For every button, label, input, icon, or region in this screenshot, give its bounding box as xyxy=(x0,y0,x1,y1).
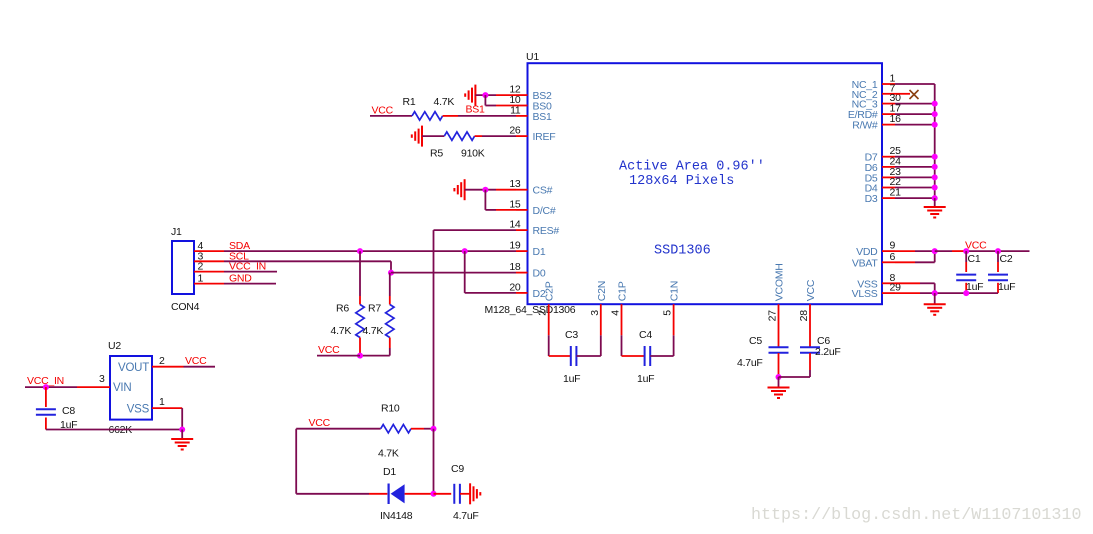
wire node to C9 xyxy=(434,493,452,495)
node CS# junction xyxy=(482,187,488,193)
svg-text:VIN: VIN xyxy=(113,382,131,394)
node U2 ground junction xyxy=(179,427,185,433)
wire R6 top xyxy=(359,251,361,304)
resistor R1 4.7K xyxy=(403,96,455,120)
node VSS/VLSS ground junction xyxy=(932,290,938,296)
U1 right pin 29 (VLSS) name+number+stub xyxy=(852,282,901,301)
svg-text:C1: C1 xyxy=(968,253,981,265)
svg-text:1uF: 1uF xyxy=(637,373,654,385)
svg-text:BS1: BS1 xyxy=(533,111,553,123)
U1 bottom pin 4 (C1P) rotated name+number xyxy=(610,281,629,316)
svg-text:4: 4 xyxy=(610,310,622,316)
wire VLSS rail xyxy=(895,292,998,294)
wire VCC_IN stub xyxy=(224,271,277,273)
resistor R6 4.7K xyxy=(331,303,365,338)
wire VCC_IN to VIN xyxy=(25,373,110,387)
wire C1 top lead xyxy=(965,251,967,272)
svg-text:19: 19 xyxy=(509,240,521,252)
wire VCC rail stub xyxy=(317,355,360,357)
wire RES# to vertical xyxy=(434,229,517,231)
wire C2N down xyxy=(600,304,602,335)
U1 left pin 18 (D0) name+number+stub xyxy=(509,261,546,280)
resistor R10 4.7K xyxy=(378,403,411,460)
resistor R5 910K xyxy=(430,132,485,160)
capacitor C5 4.7uF xyxy=(737,335,789,369)
svg-text:C5: C5 xyxy=(749,335,762,347)
svg-text:VCC: VCC xyxy=(372,105,394,117)
U1 left pin 26 (IREF) name+number+stub xyxy=(509,125,555,144)
svg-text:VCC: VCC xyxy=(805,279,817,301)
U1 right pin 8 (VSS) name+number+stub xyxy=(857,272,895,291)
wire C5 to junction xyxy=(778,353,780,377)
wire C2 bottom lead xyxy=(997,283,999,293)
U1 bottom pin 5 (C1N) rotated name+number xyxy=(662,281,681,316)
capacitor C6 2.2uF xyxy=(800,335,841,358)
svg-text:4.7K: 4.7K xyxy=(363,325,384,337)
resistor R7 4.7K xyxy=(363,303,395,338)
right ground bus vertical xyxy=(934,84,936,200)
power label VCC (pullup rail) xyxy=(318,344,340,356)
U1 right pin 16 (R/W#) name+number+stub xyxy=(852,113,901,132)
svg-text:J1: J1 xyxy=(171,226,182,238)
svg-text:D1: D1 xyxy=(533,246,546,258)
wire RES#/R10 vertical xyxy=(433,230,435,429)
svg-text:VCC: VCC xyxy=(185,355,207,367)
wire C6 to junction xyxy=(779,353,811,377)
wire NC_2 stub xyxy=(895,93,910,95)
node VCC_IN/C8 junction xyxy=(43,384,49,390)
svg-text:R5: R5 xyxy=(430,148,443,160)
svg-text:R7: R7 xyxy=(368,303,381,315)
wire R7 top xyxy=(389,273,391,305)
capacitor C2 1uF xyxy=(988,253,1015,293)
svg-text:U2: U2 xyxy=(108,340,121,352)
ground (C9) xyxy=(470,483,480,504)
wire C2 top lead xyxy=(997,251,999,272)
U1 bottom pin 3 (C2N) rotated name+number xyxy=(589,281,608,316)
wire VCC rail xyxy=(935,250,1030,252)
node SCL/D0/R7 junction xyxy=(388,270,394,276)
wire GND stub xyxy=(224,283,276,285)
U1 right pin 1 (NC_1) name+number+stub xyxy=(852,73,896,92)
U1 left pin 20 (D2) name+number+stub xyxy=(509,281,546,300)
U1 left pin 14 (RES#) name+number+stub xyxy=(509,219,559,238)
U1 bottom pin 2 (C2P) rotated name+number xyxy=(537,281,556,316)
svg-text:1: 1 xyxy=(159,396,165,408)
svg-text:D3: D3 xyxy=(865,193,878,205)
U1 active-area caption text xyxy=(619,160,765,190)
svg-text:C4: C4 xyxy=(639,329,652,341)
svg-text:2: 2 xyxy=(537,310,549,316)
svg-text:26: 26 xyxy=(509,125,521,137)
U1 left pin 11 (BS1) name+number+stub xyxy=(510,104,552,123)
wire VCC branch down xyxy=(295,429,297,494)
svg-text:U1: U1 xyxy=(526,51,539,63)
capacitor C1 1uF xyxy=(956,253,983,293)
svg-text:VLSS: VLSS xyxy=(852,288,878,300)
svg-text:R/W#: R/W# xyxy=(852,120,878,132)
U1 left pin 10 (BS0) name+number+stub xyxy=(509,94,552,113)
svg-text:4.7uF: 4.7uF xyxy=(737,357,763,369)
connector J1 CON4 body xyxy=(171,226,200,313)
wire R5 to IREF pin xyxy=(475,135,516,137)
wire VSS down to VLSS rail xyxy=(895,283,935,293)
wire C3 left lead xyxy=(549,355,571,357)
svg-text:C2: C2 xyxy=(1000,253,1013,265)
svg-text:4.7uF: 4.7uF xyxy=(453,510,479,522)
capacitor C8 1uF xyxy=(36,405,77,431)
power label VCC (R1 input) xyxy=(372,105,394,117)
wire ground stem (VLSS) xyxy=(934,293,936,304)
wire D7 to bus + junction xyxy=(895,154,938,160)
svg-text:18: 18 xyxy=(509,261,521,273)
wire E/RD# to bus + junction xyxy=(895,111,938,117)
svg-text:20: 20 xyxy=(509,281,521,293)
wire C1P down xyxy=(621,304,623,356)
wire C9 to ground xyxy=(460,493,470,495)
wire VOUT to VCC xyxy=(152,355,215,367)
ground (C5/C6) xyxy=(768,388,790,399)
net label GND xyxy=(229,273,252,285)
wire junction to ground xyxy=(778,377,780,388)
U1 left pin 19 (D1) name+number+stub xyxy=(509,240,546,259)
U1 bottom pin 28 (VCC) rotated name+number xyxy=(798,279,817,321)
U1 part name SSD1306 text xyxy=(654,244,711,259)
wire D2 branch xyxy=(465,251,516,293)
J1 pin 2 stub xyxy=(194,261,224,273)
wire R10 to vertical xyxy=(411,428,434,430)
U2 marking 662K xyxy=(109,424,133,436)
wire C4 right lead xyxy=(650,335,673,356)
svg-text:VBAT: VBAT xyxy=(852,257,878,269)
wire D3 to bus + junction xyxy=(895,195,938,201)
ground (BS2/BS0 pull-down) xyxy=(465,85,475,106)
wire diode to node xyxy=(405,493,434,495)
svg-text:4.7K: 4.7K xyxy=(378,448,399,460)
U1 left pin 12 (BS2) name+number+stub xyxy=(509,84,552,103)
svg-text:VOUT: VOUT xyxy=(118,362,149,374)
wire SCL jog down to D0 row xyxy=(390,261,392,272)
power label VCC (VDD rail) xyxy=(965,240,987,252)
svg-text:6: 6 xyxy=(890,251,896,263)
svg-text:R10: R10 xyxy=(381,403,400,415)
wire C4 left lead xyxy=(622,355,645,357)
svg-text:9: 9 xyxy=(890,240,896,252)
svg-text:1uF: 1uF xyxy=(998,281,1015,293)
svg-text:4.7K: 4.7K xyxy=(331,325,352,337)
U1 right pin 23 (D5) name+number+stub xyxy=(865,166,902,185)
U1 footprint label M128_64_SSD1306 xyxy=(485,304,576,316)
U1 left pin 15 (D/C#) name+number+stub xyxy=(509,198,556,217)
svg-text:C9: C9 xyxy=(451,463,464,475)
wire C1 bottom lead xyxy=(965,283,967,293)
wire junction down to BS0 xyxy=(485,95,516,105)
svg-text:VCC: VCC xyxy=(318,344,340,356)
svg-text:https://blog.csdn.net/W1107101: https://blog.csdn.net/W1107101310 xyxy=(751,506,1081,525)
svg-text:VCC: VCC xyxy=(309,417,331,429)
wire VDD to rail xyxy=(895,250,935,252)
wire ground stem (U2) xyxy=(181,430,183,440)
wire R/W# to bus + junction xyxy=(895,122,938,128)
wire C2P down xyxy=(548,304,550,356)
svg-text:D/C#: D/C# xyxy=(533,205,556,217)
node SDA/R6 junction xyxy=(357,248,363,254)
svg-text:RES#: RES# xyxy=(533,225,560,237)
svg-text:5: 5 xyxy=(662,310,674,316)
wire R1 to BS1 pin xyxy=(443,115,516,117)
svg-text:VDD: VDD xyxy=(856,246,878,258)
U1 right pin 7 (NC_2) name+number+stub xyxy=(852,82,896,101)
power label VCC (reset circuit) xyxy=(309,417,331,429)
wire D4 to bus + junction xyxy=(895,185,938,191)
U1 right pin 24 (D6) name+number+stub xyxy=(865,155,902,174)
U1 left pin 13 (CS#) name+number+stub xyxy=(509,178,552,197)
power label VCC (U2 out) xyxy=(185,355,207,367)
wire C3 right lead xyxy=(577,335,601,356)
node C1 bottom junction xyxy=(963,290,969,296)
wire R6 bottom xyxy=(359,338,361,356)
wire SDA to D1 pin xyxy=(224,250,516,252)
wire C1N down xyxy=(673,304,675,335)
svg-text:2.2uF: 2.2uF xyxy=(815,346,841,358)
svg-text:CON4: CON4 xyxy=(171,301,200,313)
ground (VSS/VLSS) xyxy=(924,304,946,315)
node C2 top junction xyxy=(995,248,1001,254)
svg-text:R6: R6 xyxy=(336,303,349,315)
wire NC_3 to bus + junction xyxy=(895,101,938,107)
capacitor C9 4.7uF xyxy=(451,463,479,522)
svg-text:C2N: C2N xyxy=(596,281,608,301)
svg-text:28: 28 xyxy=(798,310,810,322)
svg-text:CS#: CS# xyxy=(533,185,553,197)
svg-text:128x64 Pixels: 128x64 Pixels xyxy=(629,174,734,189)
svg-text:IN4148: IN4148 xyxy=(380,510,413,522)
node C5/C6 ground junction xyxy=(776,374,782,380)
net label SCL xyxy=(229,250,249,262)
wire ground to BS2 node xyxy=(475,94,516,96)
wire VCC to R1 xyxy=(370,115,412,117)
svg-text:4.7K: 4.7K xyxy=(434,96,455,108)
node R10/RES# junction xyxy=(431,426,437,432)
svg-text:C8: C8 xyxy=(62,405,75,417)
svg-text:C1N: C1N xyxy=(669,281,681,301)
wire VCC branch to diode xyxy=(296,493,387,495)
svg-text:C2P: C2P xyxy=(544,281,556,301)
U1 right pin 9 (VDD) name+number+stub xyxy=(856,240,895,259)
svg-text:1uF: 1uF xyxy=(966,281,983,293)
svg-text:3: 3 xyxy=(99,373,105,385)
node D1/C9 junction xyxy=(431,491,437,497)
node C1 top junction xyxy=(963,248,969,254)
net label VCC_IN xyxy=(229,261,266,273)
svg-text:SSD1306: SSD1306 xyxy=(654,244,711,259)
svg-text:21: 21 xyxy=(890,187,902,199)
U1 right pin 30 (NC_3) name+number+stub xyxy=(852,92,901,111)
wire VCC to R10 xyxy=(296,428,381,430)
svg-text:M128_64_SSD1306: M128_64_SSD1306 xyxy=(485,304,576,316)
power label VCC_IN xyxy=(27,375,64,387)
U1 bottom pin 27 (VCOMH) rotated name+number xyxy=(767,263,786,321)
U1 right pin 25 (D7) name+number+stub xyxy=(865,145,902,164)
U2 pin name VSS xyxy=(127,403,150,415)
U2 pin name VOUT xyxy=(118,362,149,374)
U1 right pin 21 (D3) name+number+stub xyxy=(865,187,902,206)
wire VSS pin to ground rail xyxy=(152,396,182,430)
svg-text:D0: D0 xyxy=(533,268,546,280)
watermark text xyxy=(751,506,1081,525)
wire C8 bottom to ground rail xyxy=(46,418,182,430)
svg-text:IREF: IREF xyxy=(533,131,556,143)
svg-text:3: 3 xyxy=(589,310,601,316)
svg-text:1uF: 1uF xyxy=(563,373,580,385)
svg-text:C1P: C1P xyxy=(617,281,629,301)
svg-text:15: 15 xyxy=(509,198,521,210)
wire R7 bottom to VCC rail xyxy=(360,338,390,356)
capacitor C3 1uF xyxy=(563,329,580,385)
node R6/R7 VCC junction xyxy=(357,353,363,359)
svg-text:R1: R1 xyxy=(403,96,416,108)
J1 pin 1 stub xyxy=(194,273,224,285)
svg-text:Active Area 0.96'': Active Area 0.96'' xyxy=(619,160,765,175)
wire D6 to bus + junction xyxy=(895,164,938,170)
ground (U2) xyxy=(171,439,193,450)
wire junction down to D/C# xyxy=(485,190,516,210)
wire vertical down to diode row xyxy=(433,429,435,494)
op-amp U1 SSD1306 IC body outline xyxy=(526,51,882,304)
node VDD/VBAT junction xyxy=(932,248,938,254)
svg-text:27: 27 xyxy=(767,310,779,322)
wire VCC28 down xyxy=(809,304,811,347)
svg-text:13: 13 xyxy=(509,178,521,190)
node BS2/BS0 junction xyxy=(482,92,488,98)
wire SCL run xyxy=(224,260,391,262)
wire NC_1 to bus top xyxy=(895,83,935,85)
svg-text:VSS: VSS xyxy=(127,403,150,415)
net label SDA xyxy=(229,240,250,252)
node SDA/D2 junction xyxy=(462,248,468,254)
capacitor C4 1uF xyxy=(637,329,654,385)
wire ground to R5 xyxy=(422,135,444,137)
U2 pin name VIN xyxy=(113,382,131,394)
wire VBAT up to VDD xyxy=(895,251,935,262)
svg-text:C3: C3 xyxy=(565,329,578,341)
svg-text:2: 2 xyxy=(159,355,165,367)
regulator U2 body xyxy=(108,340,152,420)
wire ground to CS# node xyxy=(465,189,516,191)
wire D0 row to pin xyxy=(391,272,516,274)
ground (CS#/D/C#) xyxy=(454,179,464,200)
wire bus to ground xyxy=(934,198,936,207)
net label BS1 xyxy=(466,104,486,116)
svg-text:910K: 910K xyxy=(461,148,485,160)
U1 right pin 6 (VBAT) name+number+stub xyxy=(852,251,896,270)
wire VCOMH down xyxy=(778,304,780,347)
ground (IREF) xyxy=(412,126,422,147)
J1 pin 3 stub xyxy=(194,250,224,262)
svg-text:VCOMH: VCOMH xyxy=(774,263,786,301)
U1 right pin 17 (E/RD#) name+number+stub xyxy=(848,103,901,122)
svg-text:14: 14 xyxy=(509,219,521,231)
svg-text:D1: D1 xyxy=(383,466,396,478)
ground (right bus) xyxy=(924,207,946,218)
wire D5 to bus + junction xyxy=(895,174,938,180)
no-ERC marker X on NC_2 xyxy=(910,90,919,99)
J1 pin 4 stub xyxy=(194,240,224,252)
wire C8 top lead xyxy=(45,387,47,407)
diode D1 IN4148 xyxy=(380,466,413,522)
U1 right pin 22 (D4) name+number+stub xyxy=(865,176,902,195)
